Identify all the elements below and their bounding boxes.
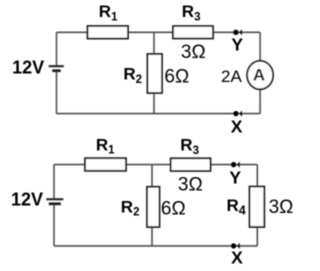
svg-text:Y: Y [229,168,241,188]
svg-text:X: X [231,248,243,268]
svg-text:Y: Y [231,34,243,54]
svg-text:12V: 12V [11,190,43,210]
svg-text:3Ω: 3Ω [181,42,206,63]
svg-text:A: A [253,66,265,85]
svg-text:2A: 2A [221,67,242,86]
svg-text:3Ω: 3Ω [269,197,294,218]
svg-text:12V: 12V [12,57,44,77]
svg-text:X: X [231,116,243,136]
svg-text:3Ω: 3Ω [178,174,203,195]
svg-text:6Ω: 6Ω [161,199,186,220]
svg-text:6Ω: 6Ω [164,66,189,87]
